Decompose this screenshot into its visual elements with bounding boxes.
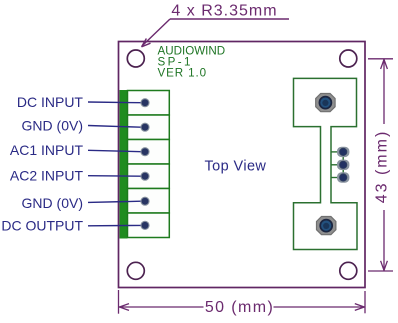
small pad 3 xyxy=(337,172,349,182)
label line DC INPUT xyxy=(88,101,141,104)
solder pad bottom (octagon) xyxy=(317,217,336,235)
dim 43mm extension line top xyxy=(368,58,393,60)
label line AC1 INPUT xyxy=(88,150,141,151)
leader note 4 x R3.35mm xyxy=(142,3,290,47)
dim 43mm line lower xyxy=(383,210,385,271)
dim 50mm line left xyxy=(119,306,204,308)
dim 43mm line upper xyxy=(383,59,385,124)
svg-text:50 (mm): 50 (mm) xyxy=(205,299,274,316)
terminal pin 2 xyxy=(140,123,149,132)
svg-text:GND (0V): GND (0V) xyxy=(22,195,83,211)
pin tick 1 xyxy=(331,151,338,153)
dim 43mm arrow up xyxy=(381,60,388,70)
mounting hole top-right xyxy=(340,50,357,67)
copper region I-beam outline xyxy=(294,78,358,249)
mounting hole bottom-left xyxy=(127,262,144,279)
terminal block cells xyxy=(128,91,170,238)
svg-text:DC INPUT: DC INPUT xyxy=(17,94,84,110)
leader line xyxy=(143,19,171,46)
svg-text:43 (mm): 43 (mm) xyxy=(374,130,391,204)
solder pad top (octagon) xyxy=(316,94,335,112)
svg-text:DC OUTPUT: DC OUTPUT xyxy=(1,218,83,234)
terminal pin 5 xyxy=(140,197,149,206)
mounting hole bottom-right xyxy=(340,262,357,279)
dim 43mm arrow down xyxy=(381,261,388,271)
dim 50mm line right xyxy=(274,306,365,308)
mounting hole top-left xyxy=(127,50,144,67)
terminal pin 3 xyxy=(140,147,149,156)
small pad 2 xyxy=(337,160,349,170)
pin tick 2 xyxy=(331,164,338,166)
svg-text:VER 1.0: VER 1.0 xyxy=(158,67,207,80)
svg-text:AC2 INPUT: AC2 INPUT xyxy=(10,168,84,184)
label line GND (0V) xyxy=(88,126,141,128)
dim 50mm extension line left xyxy=(118,290,120,314)
leader underline xyxy=(170,18,289,20)
terminal pin 1 xyxy=(140,98,149,107)
leader arrowhead xyxy=(142,39,151,47)
dim 50mm arrow right xyxy=(355,304,365,311)
terminal pin 4 xyxy=(140,172,149,181)
pin tick 3 xyxy=(331,177,338,179)
svg-text:Top View: Top View xyxy=(205,159,267,175)
terminal block body bar xyxy=(120,90,128,239)
svg-text:AC1 INPUT: AC1 INPUT xyxy=(10,142,84,158)
label line GND (0V) 2 xyxy=(88,201,141,202)
small pad 1 xyxy=(337,147,349,157)
pin trace vertical 2-3 xyxy=(342,165,344,178)
dim 50mm extension line right xyxy=(364,291,366,313)
svg-text:GND (0V): GND (0V) xyxy=(22,117,83,133)
label line DC OUTPUT xyxy=(88,224,141,226)
label line AC2 INPUT xyxy=(88,175,141,178)
dim 43mm extension line bottom xyxy=(368,270,393,272)
terminal pin 6 xyxy=(140,221,149,230)
svg-text:4 x R3.35mm: 4 x R3.35mm xyxy=(171,3,277,20)
pin trace vertical 1-2 xyxy=(342,152,344,165)
board outline xyxy=(119,42,366,288)
dim 50mm arrow left xyxy=(120,304,130,311)
